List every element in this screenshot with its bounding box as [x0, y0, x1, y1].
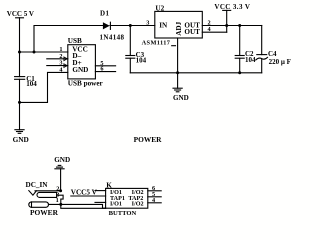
wire A to USB pin1 [20, 51, 68, 53]
node junction ground rail / C2 [238, 71, 241, 74]
wire jack pin1 rail to button [49, 204, 106, 208]
pin 1 dash label ADJ [172, 45, 176, 47]
capacitor C2 [235, 55, 244, 57]
svg-text:1: 1 [56, 197, 59, 204]
wire K pin3 stub [95, 201, 106, 203]
svg-text:GND: GND [54, 156, 70, 164]
button K box [106, 188, 148, 208]
svg-text:USB power: USB power [68, 80, 104, 88]
svg-text:ADJ: ADJ [175, 21, 183, 35]
svg-text:OUT: OUT [184, 28, 200, 36]
svg-text:6: 6 [100, 66, 103, 73]
pin arrow D+ [64, 64, 67, 68]
svg-text:220 µ F: 220 µ F [269, 58, 291, 66]
ground under C1 [15, 129, 24, 131]
svg-text:DC_IN: DC_IN [26, 181, 49, 189]
svg-text:BUTTON: BUTTON [109, 210, 137, 217]
USB connector box [68, 45, 96, 79]
node junction jack pin2 / gnd [59, 189, 62, 192]
wire diode to U2 IN [110, 25, 155, 27]
wire branch up to diode rail [34, 26, 104, 53]
svg-text:USB: USB [68, 37, 82, 45]
wire K pin5 stub [148, 196, 161, 198]
ground under U2 [177, 73, 179, 88]
svg-text:VCC5 V: VCC5 V [71, 189, 98, 197]
capacitor C3 [126, 55, 135, 57]
wire C3 bottom to ground rail [129, 58, 131, 73]
diode D1 [103, 22, 110, 29]
svg-text:VCC 5 V: VCC 5 V [7, 10, 34, 18]
svg-text:104: 104 [26, 80, 37, 88]
svg-text:ASM1117: ASM1117 [142, 39, 171, 46]
svg-text:POWER: POWER [134, 135, 163, 144]
wire C3 top [129, 26, 131, 56]
power flag VCC 3.3 V [223, 9, 231, 11]
svg-text:I/O2: I/O2 [132, 202, 144, 208]
node junction pin4 return / main [18, 101, 21, 104]
op-amp U2 regulator box [155, 11, 203, 38]
svg-text:3: 3 [146, 20, 149, 27]
node junction jack pin3 / rail [59, 203, 62, 206]
node junction on wire A at main [18, 51, 21, 54]
svg-text:VCC 3.3 V: VCC 3.3 V [214, 3, 250, 11]
capacitor C4 polarized [257, 54, 267, 56]
wire C4 bottom [261, 59, 263, 72]
capacitor C1 [15, 76, 25, 78]
node junction ground rail / U2 ADJ [176, 71, 179, 74]
svg-text:D1: D1 [100, 9, 109, 17]
wire K pin2 VCC5V net [71, 195, 106, 197]
wire gnd stem down to jack pin2 [60, 169, 62, 191]
wire jack pin2 [35, 190, 61, 192]
node junction on wire A branch up [33, 51, 36, 54]
wire U2 pin2 OUT [202, 25, 261, 27]
wire K pin4 stub [148, 202, 161, 204]
wire K pin1 stub [95, 190, 106, 192]
wire U2 pin4 OUT [202, 31, 226, 33]
pin arrow D- [64, 57, 67, 61]
wire USB pin2 stub [47, 58, 68, 60]
connector DC_IN sleeve pill [29, 202, 49, 207]
wire C2 bottom [239, 58, 241, 73]
wire USB pin6 stub [95, 71, 115, 73]
svg-text:C4: C4 [268, 50, 277, 58]
svg-text:POWER: POWER [30, 208, 59, 217]
power flag VCC 5 V [16, 17, 24, 19]
svg-text:GND: GND [72, 66, 88, 74]
connector DC_IN barrel [37, 192, 57, 197]
node junction VCC3.3 stem [225, 24, 228, 27]
wire ground rail [130, 72, 261, 74]
wire USB pin5 stub [95, 65, 115, 67]
wire K pin6 stub [148, 190, 161, 192]
wire C1 bottom to GND [19, 79, 21, 129]
node junction C2 top [238, 24, 241, 27]
svg-text:K: K [106, 182, 112, 190]
svg-text:1N4148: 1N4148 [100, 33, 125, 41]
svg-text:U2: U2 [155, 4, 164, 12]
wire jack pin3 jog [57, 195, 106, 208]
svg-text:104: 104 [245, 56, 256, 64]
wire U2 ADJ pin stem [177, 38, 179, 73]
wire USB pin4 GND return [20, 72, 68, 102]
svg-text:IN: IN [159, 21, 168, 29]
wire C4 top drop [261, 26, 263, 55]
svg-text:104: 104 [136, 57, 147, 65]
ground inverted above jack [58, 164, 61, 166]
svg-text:GND: GND [173, 94, 189, 102]
connector DC_IN tip contact [29, 191, 37, 196]
wire USB pin3 stub [47, 65, 68, 67]
wire VCC3.3 stem [226, 10, 228, 32]
svg-text:GND: GND [13, 135, 29, 144]
node junction C3 tap [129, 24, 132, 27]
wire C2 top [239, 26, 241, 56]
wire VCC5 vertical main left [19, 18, 21, 77]
svg-text:I/O1: I/O1 [110, 202, 122, 208]
